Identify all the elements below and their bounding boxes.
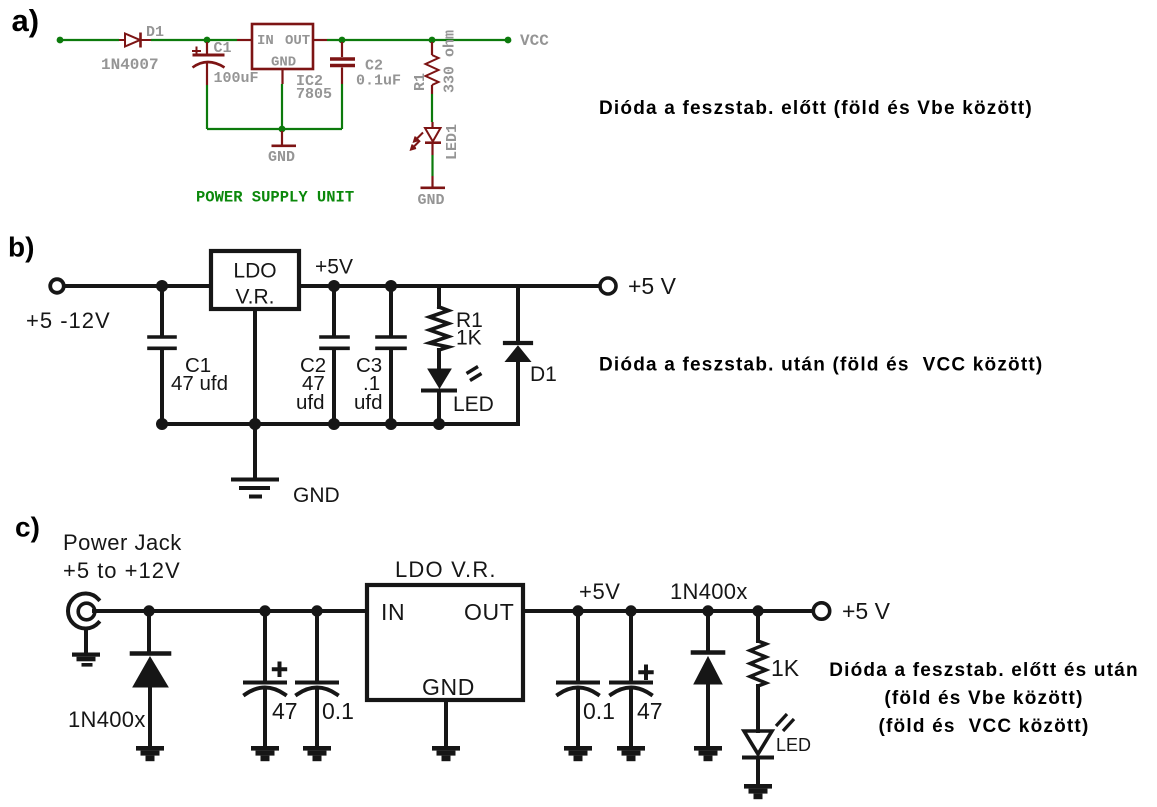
capacitor 0.1 (left): [297, 611, 337, 746]
svg-text:Power Jack: Power Jack: [63, 530, 182, 555]
svg-text:LDO: LDO: [233, 260, 276, 283]
svg-text:+5 V: +5 V: [628, 273, 677, 299]
svg-text:D1: D1: [146, 24, 164, 41]
ground symbol: [233, 480, 277, 497]
svg-text:OUT: OUT: [464, 599, 514, 625]
wire OUT to C2 node: [327, 39, 505, 41]
ground under LED1: [421, 176, 446, 188]
diode D1 (section b): [505, 288, 531, 424]
capacitor 47 (right, polarized): [611, 611, 652, 746]
svg-text:Dióda a feszstab. után (föld é: Dióda a feszstab. után (föld és VCC közö…: [599, 355, 1043, 376]
wire main rail: [94, 609, 810, 613]
svg-text:Dióda a feszstab. előtt és utá: Dióda a feszstab. előtt és után: [829, 660, 1139, 681]
ground under IC2: [272, 131, 297, 146]
wire bottom rail: [207, 128, 342, 130]
svg-text:GND: GND: [422, 674, 475, 700]
ground arrow (cap 0.1 left): [303, 746, 331, 761]
node dot C1 top: [156, 280, 168, 292]
svg-text:1K: 1K: [771, 655, 800, 681]
svg-text:+5 V: +5 V: [842, 598, 891, 624]
node dot C3 top: [385, 280, 397, 292]
svg-text:0.1: 0.1: [583, 698, 615, 724]
LED light marks (c): [776, 714, 794, 731]
node junction dot R1: [429, 37, 436, 44]
diode D1: [119, 33, 151, 48]
svg-text:ufd: ufd: [354, 391, 383, 414]
node dots rail: [143, 605, 154, 616]
node dot C2 top: [328, 280, 340, 292]
wire LDO gnd stub: [444, 700, 448, 746]
pin GND wire: [281, 69, 283, 84]
svg-text:IN: IN: [257, 33, 274, 49]
svg-text:b): b): [8, 232, 34, 263]
ground arrow (LDO): [432, 746, 460, 761]
capacitor C1 (polarized): [192, 42, 225, 85]
svg-text:GND: GND: [268, 149, 295, 166]
ground arrow (cap47 left): [251, 746, 279, 761]
svg-text:1N400x: 1N400x: [68, 707, 146, 732]
LED1 light arrows: [411, 133, 423, 150]
svg-text:Dióda a feszstab. előtt (föld: Dióda a feszstab. előtt (föld és Vbe köz…: [599, 98, 1033, 119]
terminal output circle: [600, 278, 616, 294]
LED (section b): [423, 369, 455, 424]
svg-text:47 ufd: 47 ufd: [171, 372, 228, 395]
LED (section c): [744, 714, 772, 784]
svg-text:LED: LED: [776, 735, 811, 755]
svg-text:1N400x: 1N400x: [670, 579, 748, 604]
wire GND pin down: [281, 84, 283, 129]
wire LDO gnd pin: [253, 311, 257, 478]
terminal output circle (c): [813, 603, 829, 619]
power jack ground: [72, 653, 100, 667]
terminal input circle: [50, 279, 64, 293]
node junction dot C2: [339, 37, 346, 44]
ground arrow (diode right): [694, 746, 722, 761]
svg-text:0.1: 0.1: [322, 698, 354, 724]
svg-text:POWER SUPPLY UNIT: POWER SUPPLY UNIT: [196, 189, 354, 207]
svg-text:D1: D1: [530, 363, 557, 386]
svg-text:330 ohm: 330 ohm: [442, 30, 459, 93]
wire top rail: [66, 284, 599, 288]
ground arrow (diode left): [136, 746, 164, 761]
svg-text:47: 47: [637, 698, 663, 724]
regulator box LDO V.R.: [211, 251, 299, 309]
resistor R1: [426, 42, 439, 94]
svg-text:VCC: VCC: [520, 32, 549, 50]
regulator box LDO V.R. (c): [367, 585, 523, 700]
capacitor C2: [330, 42, 355, 84]
svg-text:LDO V.R.: LDO V.R.: [395, 557, 497, 582]
capacitor 0.1 (right): [558, 611, 598, 746]
power jack symbol: [68, 594, 99, 653]
capacitor 47 (left, polarized): [245, 611, 285, 746]
svg-text:ufd: ufd: [296, 391, 325, 414]
op-amp box IC2 7805 regulator: [252, 24, 313, 69]
node bottom junction dot: [279, 126, 286, 133]
wire D1 to C1 node: [151, 39, 237, 41]
wire bottom rail: [162, 422, 518, 426]
ground arrow (cap 0.1 right): [564, 746, 592, 761]
svg-text:+5 -12V: +5 -12V: [26, 308, 111, 333]
svg-text:(föld és VCC között): (föld és VCC között): [879, 716, 1090, 737]
svg-text:GND: GND: [418, 192, 445, 209]
svg-text:7805: 7805: [296, 86, 332, 103]
ground arrow (LED c): [744, 784, 772, 799]
wire C2 down: [341, 84, 343, 129]
svg-text:100uF: 100uF: [214, 70, 259, 87]
wire LED1 to GND: [431, 155, 433, 176]
capacitor C2: [321, 288, 348, 424]
svg-text:LED1: LED1: [444, 124, 461, 160]
svg-text:47: 47: [272, 698, 298, 724]
svg-text:+5 to +12V: +5 to +12V: [63, 558, 181, 583]
node junction dot C1: [204, 37, 211, 44]
svg-text:IN: IN: [381, 599, 405, 625]
svg-text:1K: 1K: [456, 327, 482, 350]
capacitor C3: [377, 288, 405, 424]
ground arrow (cap 47 right): [617, 746, 645, 761]
node bottom dots: [156, 418, 168, 430]
svg-text:0.1uF: 0.1uF: [356, 73, 401, 90]
svg-text:GND: GND: [271, 55, 296, 71]
LED light marks: [467, 367, 482, 381]
capacitor C1: [149, 288, 175, 424]
wire R1 to LED1: [431, 94, 433, 122]
diode 1N400x (right): [693, 611, 723, 746]
wire input to D1: [62, 39, 119, 41]
svg-text:+5V: +5V: [315, 256, 353, 279]
svg-text:1N4007: 1N4007: [101, 56, 159, 74]
svg-text:OUT: OUT: [285, 33, 310, 49]
resistor R1: [430, 288, 449, 369]
svg-text:+5V: +5V: [579, 579, 621, 604]
resistor 1K: [750, 611, 766, 714]
pin IN wire: [237, 39, 252, 41]
node VCC dot: [505, 37, 512, 44]
pin OUT wire: [313, 39, 327, 41]
svg-text:(föld és Vbe között): (föld és Vbe között): [884, 688, 1083, 709]
wire C1 down: [206, 85, 208, 129]
svg-text:C1: C1: [214, 40, 232, 57]
svg-text:V.R.: V.R.: [236, 286, 275, 309]
LED LED1: [425, 122, 441, 155]
node input dot: [57, 37, 64, 44]
svg-text:c): c): [15, 512, 40, 543]
svg-text:GND: GND: [293, 484, 340, 507]
svg-text:a): a): [12, 3, 40, 38]
svg-text:LED: LED: [453, 393, 494, 416]
svg-text:R1: R1: [412, 73, 429, 91]
diode 1N400x (left): [132, 611, 169, 746]
